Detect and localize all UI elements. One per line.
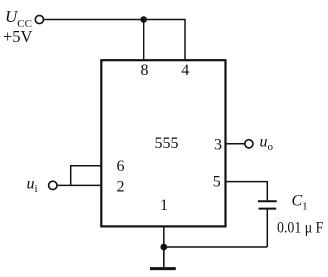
svg-text:+5V: +5V [3,27,33,46]
junction dot bottom node [160,244,167,251]
svg-text:6: 6 [117,158,125,175]
wire pin 1 [163,226,165,247]
ground stub [163,247,165,267]
capacitor C1 bottom plate [259,208,277,210]
wire pin 6 branch [71,166,102,186]
terminal ui (open circle) [49,181,57,189]
wire pin 8 [143,20,145,61]
terminal uo (open circle) [245,140,253,148]
capacitor C1 top plate [258,200,277,202]
svg-text:0.01 μ F: 0.01 μ F [277,219,323,236]
svg-text:8: 8 [141,62,149,79]
junction dot on top rail [140,16,147,23]
wire pin 3 output [226,143,245,145]
op-amp: 555 timer IC U1 body [101,60,225,226]
wire pin 4 [184,19,186,61]
ground bar [150,267,176,270]
svg-text:1: 1 [160,197,168,214]
wire: +5V top rail [43,19,185,21]
svg-text:2: 2 [117,179,125,196]
wire capacitor bottom lead [266,210,268,247]
svg-text:5: 5 [213,174,221,191]
wire pin 2 input [57,184,101,186]
svg-text:C1: C1 [292,193,308,213]
terminal Ucc (open circle) [35,15,43,23]
svg-text:555: 555 [155,135,179,152]
svg-text:uo: uo [260,134,274,154]
svg-text:ui: ui [27,175,38,195]
svg-text:3: 3 [214,137,222,154]
wire bottom rail [164,246,267,248]
wire pin 5 to capacitor [226,182,268,201]
svg-text:4: 4 [181,62,189,79]
